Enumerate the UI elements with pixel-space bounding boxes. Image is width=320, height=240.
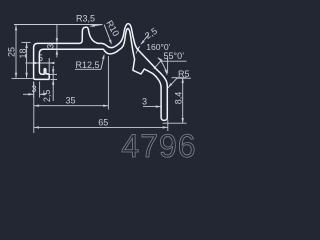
arrow 2,5 lower — [52, 80, 54, 85]
arrow 5 right — [49, 62, 54, 64]
svg-text:R5: R5 — [178, 69, 190, 79]
leader R5 diagonal — [168, 78, 177, 88]
arrow 65 right — [163, 126, 168, 128]
arrow 55 bottom — [165, 70, 168, 75]
arrow R10 — [109, 40, 112, 45]
arrow 3 top wall down — [56, 38, 58, 43]
arrow R12,5 — [102, 54, 104, 59]
svg-text:3: 3 — [31, 84, 36, 94]
dim 2,5 extension lower — [51, 79, 58, 81]
arrow 3 top wall up — [56, 49, 58, 54]
dim 25 line — [15, 25, 17, 78]
leader R12,5 diagonal — [101, 56, 104, 70]
angle 55 ext vertical — [167, 58, 169, 73]
dim 3 right line — [143, 106, 161, 108]
dim 8,4 line — [182, 78, 184, 124]
leader 55 underline — [161, 60, 187, 62]
dim 3 bottom-left line left tail — [23, 93, 34, 95]
leader 2,5 upper line — [141, 34, 149, 44]
dim 18 line — [26, 43, 28, 78]
dim 35/65 left extension — [33, 82, 35, 134]
dim 2,5 extension upper — [47, 73, 58, 75]
arrow leader 2,5 — [140, 40, 144, 45]
arrow 3 right — [156, 105, 161, 107]
svg-text:2,5: 2,5 — [42, 90, 52, 103]
arrow 3bl left — [28, 93, 33, 95]
dim 3 bottom-left extension left — [33, 82, 35, 98]
dim 65 right extension — [167, 120, 169, 132]
leader R5 underline — [177, 77, 191, 79]
dim 5 right extension — [48, 58, 50, 73]
profile outline — [34, 24, 168, 121]
svg-text:R12,5: R12,5 — [76, 60, 100, 70]
arrow 35 right — [103, 105, 108, 107]
dim 35 right extension — [107, 56, 109, 110]
arrow 5 left — [34, 62, 39, 64]
svg-text:4796: 4796 — [121, 128, 196, 160]
arrow 25 bottom — [15, 73, 17, 78]
svg-text:3: 3 — [142, 97, 147, 107]
svg-text:25: 25 — [6, 47, 16, 57]
dim 25 extension bottom — [12, 77, 35, 79]
arrow 35 left — [34, 105, 39, 107]
arrow 55 top — [158, 57, 163, 61]
arrow 25 top — [15, 25, 17, 30]
svg-text:35: 35 — [65, 95, 75, 105]
dim 65 line — [34, 126, 168, 128]
dim 5 line — [26, 62, 53, 64]
svg-text:R3,5: R3,5 — [76, 14, 95, 24]
leader R12,5 underline — [75, 68, 101, 70]
arrow 160 — [136, 46, 140, 51]
arrow R5 — [168, 83, 172, 88]
arrow 3bl right — [40, 93, 45, 95]
arrow 2,5 upper — [52, 69, 54, 74]
dim 35 line — [34, 105, 109, 107]
arrow 18 top — [25, 43, 27, 48]
svg-text:8,4: 8,4 — [173, 92, 183, 105]
svg-text:18: 18 — [18, 48, 28, 58]
leader R10 line — [104, 25, 111, 44]
dim 3 bottom-left line right tail — [40, 93, 46, 95]
dimension texts — [6, 14, 189, 128]
arrow 8,4 top — [182, 78, 184, 83]
arrow 18 bottom — [25, 73, 27, 78]
dim 3 top line — [56, 25, 58, 58]
leader R3,5 diagonal — [90, 25, 102, 27]
arrow 8,4 bottom — [182, 118, 184, 123]
dim 25 extension top — [14, 24, 103, 26]
angle 160 arc — [136, 46, 140, 53]
dim 8,4 bottom extension — [163, 122, 187, 124]
dim 18 extension top — [22, 41, 31, 43]
leader 55 diagonal — [154, 61, 161, 69]
dimension arrows — [15, 25, 184, 129]
dim 2,5 line — [52, 66, 54, 101]
dim 8,4 top extension — [172, 77, 187, 79]
angle 55 arc — [158, 58, 167, 75]
svg-text:55°0’: 55°0’ — [164, 51, 185, 61]
svg-text:65: 65 — [98, 117, 108, 127]
svg-text:3: 3 — [46, 44, 56, 49]
dim 3 bottom-left extension right — [39, 82, 41, 98]
arrow 65 left — [34, 126, 39, 128]
arrow R3,5 — [90, 25, 95, 27]
